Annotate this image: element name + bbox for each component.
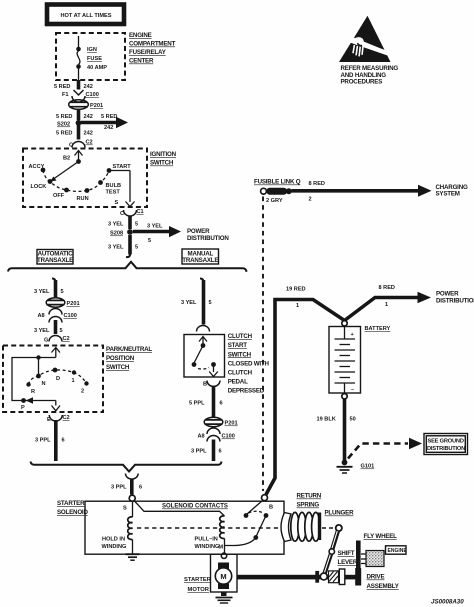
ignition switch contact BULB TEST — [98, 180, 121, 195]
svg-text:STARTER: STARTER — [57, 500, 85, 507]
ignition switch contact LOCK — [31, 179, 53, 190]
fusible link Q — [254, 179, 301, 205]
svg-text:CLUTCH: CLUTCH — [228, 369, 253, 376]
drive shaft motor to pinion — [237, 575, 356, 580]
clutch switch entry arrow — [199, 337, 207, 345]
svg-text:P: P — [21, 405, 25, 411]
svg-text:–: – — [351, 387, 354, 393]
svg-text:1: 1 — [296, 303, 299, 309]
starter motor box — [211, 554, 238, 592]
svg-text:242: 242 — [104, 125, 113, 131]
connector below brace — [126, 473, 139, 479]
wire 3 YEL 5 to bus — [108, 235, 138, 257]
svg-text:19 RED: 19 RED — [286, 287, 306, 293]
svg-text:S208: S208 — [110, 231, 123, 237]
connector E C2 — [49, 415, 69, 421]
starter solenoid M terminal — [221, 553, 226, 558]
drive assembly collar, ball, hatch block, pinion — [315, 568, 361, 586]
svg-text:SOLENOID: SOLENOID — [57, 509, 88, 516]
grommet P201 automatic — [46, 298, 79, 307]
svg-text:DISTRIBUTION: DISTRIBUTION — [436, 298, 474, 305]
fuse IGN 40 AMP — [76, 36, 107, 80]
label ENGINE boxed — [386, 546, 408, 554]
svg-text:PARK/NEUTRAL: PARK/NEUTRAL — [106, 346, 152, 353]
svg-text:S202: S202 — [57, 122, 70, 128]
svg-text:6: 6 — [220, 401, 223, 407]
label DRIVE ASSEMBLY — [367, 574, 400, 591]
svg-text:5 RED: 5 RED — [54, 84, 70, 90]
svg-text:50: 50 — [350, 417, 356, 423]
connector A8 C100 automatic — [38, 307, 77, 323]
svg-text:5: 5 — [209, 300, 212, 306]
svg-text:242: 242 — [84, 84, 93, 90]
wire 8 RED 2 to charging system arrow — [292, 181, 468, 203]
ignition switch contact OFF — [53, 188, 69, 199]
svg-text:3 YEL: 3 YEL — [108, 222, 124, 228]
plunger axis dashed line — [137, 527, 283, 529]
svg-text:MOTOR: MOTOR — [188, 587, 210, 593]
starter solenoid S terminal — [129, 495, 135, 501]
contact P with arrow — [21, 397, 33, 411]
splice S208 — [110, 229, 133, 236]
clutch switch contacts — [192, 343, 216, 369]
pull-in winding coil — [220, 516, 225, 553]
svg-text:PROCEDURES: PROCEDURES — [341, 79, 383, 86]
dashed wire fusible link to solenoid B — [262, 197, 264, 492]
svg-text:RUN: RUN — [77, 196, 89, 202]
svg-text:S: S — [123, 506, 127, 512]
return spring — [281, 512, 321, 541]
svg-text:N: N — [42, 381, 46, 387]
wire 19 RED 1 battery feed — [266, 287, 345, 495]
svg-text:A8: A8 — [38, 313, 45, 319]
svg-text:8 RED: 8 RED — [309, 181, 325, 187]
hold-in winding coil — [128, 501, 133, 553]
svg-text:C2: C2 — [63, 336, 70, 342]
wire 8 RED 1 to power distribution arrow — [345, 285, 474, 321]
arrow 3 YEL 5 to POWER DISTRIBUTION — [133, 224, 229, 245]
box SEE GROUND DISTRIBUTION — [424, 434, 468, 455]
svg-text:+: + — [351, 332, 355, 338]
svg-text:FUSIBLE LINK Q: FUSIBLE LINK Q — [254, 179, 301, 186]
svg-text:BATTERY: BATTERY — [365, 326, 391, 332]
svg-text:PULL–IN: PULL–IN — [195, 537, 218, 543]
svg-text:3 PPL: 3 PPL — [35, 438, 51, 444]
ignition switch entry arrow B2 — [63, 151, 83, 164]
svg-text:B: B — [203, 382, 207, 388]
svg-text:5: 5 — [135, 245, 138, 251]
ignition switch contact RUN — [77, 188, 90, 202]
ignition switch dashed travel arc — [43, 170, 109, 191]
wire 3 YEL 5 to C2 G — [34, 320, 63, 334]
svg-text:6: 6 — [62, 438, 65, 444]
grommet P201 manual — [204, 417, 237, 426]
svg-text:3 YEL: 3 YEL — [34, 328, 50, 334]
wire S to pull-in winding — [134, 501, 225, 517]
svg-text:5: 5 — [135, 222, 138, 228]
park/neutral dashed travel arc — [29, 370, 87, 385]
engine block — [361, 551, 384, 567]
ignition switch dashed box — [23, 149, 147, 208]
label STARTER SOLENOID — [57, 500, 88, 516]
hold-in winding ground — [126, 554, 140, 560]
svg-text:BULB: BULB — [106, 183, 122, 189]
svg-text:5: 5 — [60, 328, 63, 334]
label PARK/NEUTRAL POSITION SWITCH — [106, 346, 152, 371]
clutch start switch box — [184, 335, 225, 378]
contact R — [26, 382, 35, 395]
svg-text:ASSEMBLY: ASSEMBLY — [367, 583, 400, 590]
svg-text:WINDING: WINDING — [102, 544, 127, 550]
contact D — [53, 368, 60, 382]
svg-text:FLY WHEEL: FLY WHEEL — [364, 533, 398, 540]
wire 5 RED 242 fuse to C100 — [54, 80, 93, 90]
svg-text:SWITCH: SWITCH — [150, 160, 174, 167]
svg-text:8 RED: 8 RED — [379, 285, 395, 291]
svg-text:B2: B2 — [63, 156, 70, 162]
svg-text:SWITCH: SWITCH — [106, 364, 130, 371]
label box AUTOMATIC TRANSAXLE — [37, 250, 73, 265]
svg-text:2: 2 — [81, 389, 84, 395]
svg-text:6: 6 — [139, 485, 142, 491]
svg-text:DISTRIBUTION: DISTRIBUTION — [187, 235, 229, 242]
label PULL-IN WINDING M — [195, 537, 224, 551]
svg-text:P201: P201 — [90, 103, 103, 109]
svg-text:242: 242 — [84, 114, 93, 120]
svg-text:SWITCH: SWITCH — [228, 351, 252, 358]
svg-text:RETURN: RETURN — [297, 493, 322, 500]
fly wheel — [356, 541, 361, 569]
svg-text:G: G — [44, 338, 48, 344]
svg-text:PEDAL: PEDAL — [228, 379, 248, 386]
svg-text:1: 1 — [385, 302, 388, 308]
svg-text:2 GRY: 2 GRY — [266, 198, 283, 204]
svg-text:M: M — [219, 545, 224, 551]
park/neutral wiper to N — [38, 358, 40, 375]
label RETURN SPRING — [297, 493, 322, 509]
label REFER MEASURING AND HANDLING PROCEDURES — [341, 65, 399, 86]
svg-text:SYSTEM: SYSTEM — [436, 191, 460, 198]
svg-text:242: 242 — [84, 131, 93, 137]
shift lever — [320, 531, 338, 580]
svg-text:CENTER: CENTER — [129, 58, 154, 65]
wire 3 YEL 5 C1 to S208 — [108, 216, 138, 230]
svg-text:TRANSAXLE: TRANSAXLE — [182, 257, 218, 264]
label HOLD IN WINDING — [102, 537, 127, 551]
connector below clutch switch — [207, 381, 220, 387]
svg-text:FUSE: FUSE — [87, 56, 102, 62]
label STARTER MOTOR — [184, 577, 212, 593]
svg-text:5: 5 — [148, 238, 151, 244]
svg-text:LOCK: LOCK — [31, 184, 47, 190]
park/neutral position switch dashed box — [3, 346, 103, 413]
wire 19 BLK 50 to ground — [317, 399, 356, 461]
ignition switch contact ACCY — [29, 164, 46, 172]
svg-text:DEPRESSED: DEPRESSED — [228, 388, 265, 395]
svg-text:HOT AT ALL TIMES: HOT AT ALL TIMES — [61, 13, 112, 19]
svg-text:STARTER: STARTER — [184, 577, 212, 583]
grommet P201 — [69, 100, 103, 110]
svg-text:TEST: TEST — [106, 190, 121, 196]
svg-text:START: START — [228, 342, 248, 349]
transaxle options brace top — [8, 262, 247, 272]
label box MANUAL TRANSAXLE — [182, 249, 219, 264]
park/neutral entry arrow — [52, 348, 61, 358]
ground G101 — [337, 460, 375, 473]
plunger rod and tip — [322, 525, 342, 531]
svg-text:5: 5 — [61, 289, 64, 295]
connector C C2 ignition feed — [69, 140, 93, 149]
svg-text:ENGINE: ENGINE — [388, 548, 408, 554]
svg-text:19 BLK: 19 BLK — [317, 417, 336, 423]
svg-text:3 YEL: 3 YEL — [34, 289, 50, 295]
svg-text:POWER: POWER — [436, 291, 459, 298]
dashed wire to see ground distribution — [348, 438, 422, 459]
solenoid contacts B feed — [225, 501, 269, 546]
svg-text:PLUNGER: PLUNGER — [325, 510, 355, 517]
contact N — [36, 374, 45, 387]
wire 5 RED 242 to C2 — [56, 125, 93, 140]
svg-text:B: B — [269, 505, 273, 511]
svg-text:LEVER: LEVER — [338, 559, 358, 566]
svg-text:6: 6 — [219, 449, 222, 455]
svg-text:COMPARTMENT: COMPARTMENT — [129, 41, 176, 48]
svg-text:CLUTCH: CLUTCH — [228, 333, 253, 340]
svg-text:5 PPL: 5 PPL — [189, 401, 205, 407]
wire 5 RED 242 — [56, 109, 93, 120]
wire 3 YEL 5 manual branch — [181, 279, 212, 325]
svg-text:P201: P201 — [67, 301, 80, 307]
svg-text:3 YEL: 3 YEL — [181, 300, 197, 306]
transaxle options brace bottom — [31, 462, 222, 472]
ignition switch wiper to LOCK — [50, 162, 79, 182]
svg-text:C2: C2 — [86, 140, 93, 146]
svg-text:OFF: OFF — [53, 193, 65, 199]
svg-text:C100: C100 — [86, 92, 99, 98]
svg-text:START: START — [113, 164, 132, 170]
svg-text:C1: C1 — [137, 209, 144, 215]
wire 5 PPL 6 — [189, 386, 223, 418]
connector C C1 — [120, 209, 144, 217]
connector clutch switch entry — [197, 326, 210, 332]
svg-text:3 PPL: 3 PPL — [111, 485, 127, 491]
label ENGINE COMPARTMENT FUSE/RELAY CENTER — [129, 32, 176, 65]
svg-text:DRIVE: DRIVE — [367, 574, 385, 581]
svg-text:SHIFT: SHIFT — [338, 550, 355, 557]
svg-text:IGN: IGN — [87, 47, 97, 53]
svg-text:40 AMP: 40 AMP — [87, 65, 107, 71]
svg-text:A8: A8 — [198, 434, 205, 440]
svg-text:5 RED: 5 RED — [56, 114, 72, 120]
svg-text:TRANSAXLE: TRANSAXLE — [37, 257, 73, 264]
svg-text:ENGINE: ENGINE — [129, 32, 152, 39]
svg-text:C2: C2 — [63, 415, 70, 421]
svg-text:1: 1 — [72, 378, 75, 384]
svg-text:3 YEL: 3 YEL — [108, 245, 124, 251]
park/neutral feed wires — [12, 355, 56, 400]
starter motor ground — [216, 592, 233, 603]
contact 2 — [81, 381, 89, 394]
svg-text:S: S — [115, 200, 119, 206]
svg-text:M: M — [220, 572, 226, 581]
wire START to S terminal — [109, 171, 135, 207]
battery — [329, 321, 391, 399]
ignition switch contact START — [107, 164, 132, 173]
arrow 5 RED 242 to right — [81, 114, 128, 131]
wire 3 PPL 6 automatic to brace — [35, 420, 65, 461]
ESD warning triangle — [339, 16, 392, 62]
svg-text:3 YEL: 3 YEL — [147, 224, 163, 230]
svg-text:2: 2 — [309, 197, 312, 203]
label CLUTCH START SWITCH CLOSED WITH CLUTCH PEDAL DEPRESSED — [228, 333, 270, 395]
box HOT AT ALL TIMES — [47, 5, 124, 25]
svg-text:SPRING: SPRING — [297, 502, 320, 509]
svg-text:SEE GROUND: SEE GROUND — [428, 438, 464, 444]
svg-text:5 RED: 5 RED — [101, 114, 117, 120]
connector G C2 — [44, 336, 70, 344]
wire 3 YEL 5 automatic branch — [34, 279, 64, 298]
svg-text:IGNITION: IGNITION — [150, 151, 177, 158]
svg-text:D: D — [56, 376, 60, 382]
connector F1 C100 — [62, 90, 99, 102]
wire 3 PPL 6 to starter solenoid — [111, 479, 142, 495]
svg-text:HOLD IN: HOLD IN — [102, 537, 125, 543]
label IGNITION SWITCH — [150, 151, 177, 167]
svg-text:C100: C100 — [64, 313, 77, 319]
label SHIFT LEVER — [338, 550, 358, 566]
engine compartment fuse/relay center dashed box — [56, 33, 125, 80]
svg-text:5 RED: 5 RED — [56, 131, 72, 137]
svg-text:F1: F1 — [62, 92, 69, 98]
svg-text:FUSE/RELAY: FUSE/RELAY — [129, 49, 167, 56]
svg-text:ACCY: ACCY — [29, 164, 45, 170]
svg-text:WINDING: WINDING — [195, 544, 220, 550]
park/neutral exit arrow E — [47, 401, 60, 424]
contact 1 — [72, 370, 77, 384]
svg-text:C: C — [120, 211, 124, 217]
svg-text:3 PPL: 3 PPL — [191, 449, 207, 455]
svg-text:SOLENOID CONTACTS: SOLENOID CONTACTS — [162, 504, 228, 510]
svg-text:P201: P201 — [225, 421, 238, 427]
svg-text:POWER: POWER — [187, 228, 210, 235]
svg-text:C100: C100 — [222, 434, 235, 440]
svg-text:G101: G101 — [361, 464, 375, 470]
svg-text:R: R — [31, 389, 35, 395]
svg-text:JS0008A30: JS0008A30 — [431, 599, 464, 606]
starter solenoid B terminal — [262, 495, 268, 501]
svg-text:DISTRIBUTION: DISTRIBUTION — [427, 446, 465, 452]
wire 3 PPL 6 manual to brace — [191, 440, 222, 462]
connector A8 C100 manual — [198, 427, 235, 442]
svg-text:POSITION: POSITION — [106, 355, 135, 362]
starter solenoid box — [85, 501, 284, 554]
clutch switch exit arrow B — [203, 365, 218, 388]
splice S202 — [57, 120, 81, 128]
